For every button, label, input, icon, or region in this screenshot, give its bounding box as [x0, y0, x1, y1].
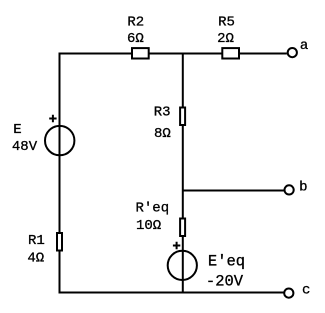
svg-text:R1: R1: [28, 233, 45, 249]
resistor R3: [180, 108, 185, 126]
svg-text:b: b: [299, 179, 307, 195]
polarity + of E'eq: [173, 242, 180, 249]
svg-text:-20V: -20V: [206, 272, 244, 290]
svg-text:8Ω: 8Ω: [154, 126, 171, 142]
resistor R'eq: [180, 219, 185, 237]
resistor R1: [57, 233, 62, 251]
svg-text:48V: 48V: [12, 139, 38, 155]
svg-text:R2: R2: [127, 14, 144, 30]
svg-text:R'eq: R'eq: [136, 201, 170, 217]
svg-text:a: a: [300, 38, 308, 54]
svg-text:E: E: [13, 122, 21, 138]
terminal b: [285, 185, 294, 194]
svg-text:6Ω: 6Ω: [127, 31, 144, 47]
wire: bottom horizontal to terminal c: [59, 292, 285, 294]
svg-text:R3: R3: [154, 104, 171, 120]
voltage source E: [45, 126, 74, 155]
svg-text:R5: R5: [218, 14, 235, 30]
svg-text:4Ω: 4Ω: [27, 250, 44, 266]
resistor R2: [132, 48, 149, 58]
wire: horizontal to terminal b: [183, 190, 285, 192]
svg-text:2Ω: 2Ω: [217, 31, 234, 47]
svg-text:10Ω: 10Ω: [136, 218, 161, 234]
terminal a: [288, 48, 297, 57]
polarity + of E: [49, 115, 56, 122]
resistor R5: [222, 48, 239, 58]
wire: top horizontal from left branch through R2/R5 to terminal a: [59, 53, 287, 55]
svg-text:E'eq: E'eq: [208, 252, 245, 270]
wire: left vertical (E/R1 branch): [59, 54, 61, 293]
svg-text:c: c: [302, 283, 310, 299]
voltage source E'eq: [168, 251, 197, 280]
terminal c: [284, 289, 293, 298]
wire: middle vertical (R3/R'eq/E'eq branch): [182, 54, 184, 293]
